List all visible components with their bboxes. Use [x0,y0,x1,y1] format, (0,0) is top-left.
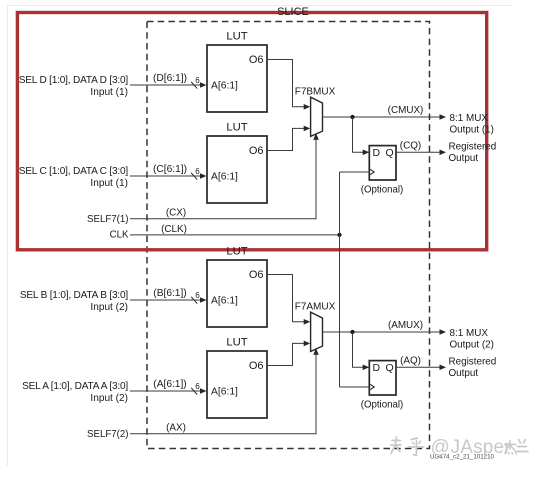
junction node on CMUX [350,115,354,119]
flip-flop CQ register (D-FF) [369,146,396,180]
svg-text:@: @ [431,437,450,458]
svg-text:6: 6 [195,382,200,391]
mux F7BMUX [295,87,336,137]
wire: B input bus [130,299,201,301]
svg-text:Input (2): Input (2) [90,302,128,313]
junction node on AMUX [350,330,354,334]
svg-text:CLK: CLK [110,230,129,241]
svg-text:O6: O6 [249,360,264,372]
svg-text:Q: Q [386,362,394,374]
svg-text:Output (1): Output (1) [450,125,494,136]
LUT B [207,246,267,328]
svg-text:(Optional): (Optional) [361,400,404,411]
svg-text:(CMUX): (CMUX) [388,105,424,116]
svg-text:(CX): (CX) [166,207,186,218]
svg-text:Registered: Registered [449,141,497,152]
svg-text:O6: O6 [249,54,264,66]
wire: FF Q output (CQ) [396,151,441,153]
wire: AMUX branch to FF D input [353,332,365,367]
svg-text:Registered: Registered [449,356,497,367]
svg-text:LUT: LUT [226,122,247,134]
input label SEL D [19,75,129,98]
arrow AMUX output [440,329,447,335]
svg-text:O6: O6 [249,145,264,157]
arrow into LUT C [200,173,207,179]
svg-text:LUT: LUT [226,337,247,349]
arrow into F7AMUX input 0 [304,319,311,325]
input label SEL C [19,166,129,189]
svg-text:Input (1): Input (1) [90,178,128,189]
wire: F7AMUX output (AMUX) [323,331,442,333]
svg-text:(D[6:1]): (D[6:1]) [153,73,187,84]
svg-text:(CLK): (CLK) [161,224,187,235]
svg-text:Input (1): Input (1) [90,87,128,98]
arrow select into F7BMUX [313,133,319,140]
arrow into LUT B [200,297,207,303]
arrow select into F7AMUX [313,348,319,355]
wire: LUT B O6 to F7AMUX input 0 [268,275,306,322]
wire: F7BMUX output (CMUX) [323,116,442,118]
SLICE boundary (dashed box) [147,22,430,449]
mux F7AMUX [295,302,336,352]
svg-text:Q: Q [386,147,394,159]
svg-text:(AX): (AX) [166,422,186,433]
wire: LUT C O6 to F7BMUX input 1 [268,128,306,150]
svg-text:D: D [373,147,381,159]
bus width slash 6 (C) [191,167,200,179]
wire: A input bus [130,390,201,392]
arrow into FF D [363,365,370,371]
svg-text:6: 6 [195,167,200,176]
svg-text:Output (2): Output (2) [450,340,494,351]
svg-text:(AMUX): (AMUX) [388,320,423,331]
svg-text:SELF7(1): SELF7(1) [87,214,128,225]
svg-text:A[6:1]: A[6:1] [211,81,238,92]
svg-text:A[6:1]: A[6:1] [211,296,238,307]
wire: CLK stub to AQ FF clock [340,386,370,388]
wire: FF Q output (AQ) [396,366,441,368]
svg-text:6: 6 [195,76,200,85]
red annotation rectangle [17,13,486,250]
svg-text:JAsper: JAsper [451,437,512,458]
arrow into F7BMUX input 1 [304,126,311,132]
input label SEL A [22,381,128,404]
svg-text:(AQ): (AQ) [400,356,421,367]
arrow AQ output [440,365,447,371]
watermark [391,437,529,456]
wire: CMUX branch to FF D input [353,117,365,152]
svg-text:LUT: LUT [226,246,247,258]
arrow into FF D [363,150,370,156]
FF clock wedge [370,384,374,389]
FF clock wedge [370,169,374,174]
svg-text:SEL B [1:0], DATA B [3:0]: SEL B [1:0], DATA B [3:0] [20,290,129,301]
svg-text:LUT: LUT [226,31,247,43]
output label 8:1 MUX Output (2) [450,328,494,351]
svg-text:Output: Output [449,368,479,379]
arrow into F7AMUX input 1 [304,341,311,347]
output label Registered Output [449,141,497,164]
svg-text:F7AMUX: F7AMUX [295,302,336,313]
wire: CLK vertical distribution [339,172,341,387]
input label SEL B [20,290,129,313]
svg-text:A[6:1]: A[6:1] [211,172,238,183]
arrow into LUT A [200,388,207,394]
wire: AX select into F7AMUX [130,354,316,434]
svg-text:SEL A [1:0], DATA A [3:0]: SEL A [1:0], DATA A [3:0] [22,381,128,392]
svg-text:D: D [373,362,381,374]
svg-text:SEL C [1:0], DATA C [3:0]: SEL C [1:0], DATA C [3:0] [19,166,129,177]
bus width slash 6 (B) [191,291,200,303]
svg-text:8:1 MUX: 8:1 MUX [450,328,489,339]
arrow CQ output [440,150,447,156]
wire: CLK stub to CQ FF clock [340,171,370,173]
wire: D input bus [130,84,201,86]
LUT C [207,122,267,204]
svg-text:SEL D [1:0], DATA D [3:0]: SEL D [1:0], DATA D [3:0] [19,75,129,86]
svg-text:Output: Output [449,153,479,164]
LUT A [207,337,267,419]
svg-text:8:1 MUX: 8:1 MUX [450,113,489,124]
svg-text:SELF7(2): SELF7(2) [87,429,128,440]
wire: CX select into F7BMUX [130,139,316,219]
LUT D [207,31,267,113]
flip-flop AQ register (D-FF) [369,361,396,395]
svg-text:(Optional): (Optional) [361,185,404,196]
output label Registered Output [449,356,497,379]
junction node on CLK [337,233,341,237]
svg-text:(CQ): (CQ) [400,141,421,152]
arrow CMUX output [440,114,447,120]
svg-text:Input (2): Input (2) [90,393,128,404]
arrow into LUT D [200,82,207,88]
svg-text:(A[6:1]): (A[6:1]) [153,379,186,390]
svg-text:O6: O6 [249,269,264,281]
svg-text:(B[6:1]): (B[6:1]) [153,288,186,299]
arrow into F7BMUX input 0 [304,104,311,110]
output label 8:1 MUX Output (1) [450,113,494,136]
svg-text:SLICE: SLICE [277,6,309,18]
svg-text:6: 6 [195,291,200,300]
wire: LUT D O6 to F7BMUX input 0 [268,60,306,107]
bus width slash 6 (D) [191,76,200,88]
bus width slash 6 (A) [191,382,200,394]
svg-text:F7BMUX: F7BMUX [295,87,336,98]
svg-text:A[6:1]: A[6:1] [211,387,238,398]
wire: CLK [130,234,340,236]
svg-text:(C[6:1]): (C[6:1]) [153,164,187,175]
wire: LUT A O6 to F7AMUX input 1 [268,343,306,365]
wire: C input bus [130,175,201,177]
